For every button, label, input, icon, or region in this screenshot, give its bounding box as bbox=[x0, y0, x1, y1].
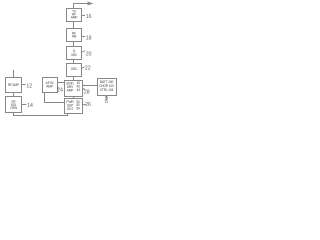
leader 16 bbox=[82, 15, 86, 17]
wire 22-28 bbox=[73, 77, 75, 81]
svg-text:24: 24 bbox=[57, 87, 63, 93]
svg-text:AM: AM bbox=[72, 35, 77, 39]
svg-text:26: 26 bbox=[85, 102, 91, 108]
svg-text:18: 18 bbox=[86, 36, 92, 42]
block 22 bbox=[67, 64, 82, 77]
wire input stub bbox=[13, 70, 15, 78]
svg-text:AMP: AMP bbox=[71, 16, 78, 20]
svg-text:AMP: AMP bbox=[46, 84, 53, 88]
leader 20 bbox=[82, 51, 86, 53]
svg-text:54: 54 bbox=[76, 107, 80, 111]
wire 28-26 bbox=[73, 97, 75, 99]
wire 24-28 bbox=[58, 82, 65, 84]
wire 26 bottom rail to block 14 bbox=[14, 113, 68, 116]
block 20 bbox=[67, 47, 82, 60]
svg-text:OSC: OSC bbox=[71, 67, 78, 71]
leader 26 bbox=[83, 104, 86, 106]
svg-text:CTRL 104: CTRL 104 bbox=[100, 88, 114, 92]
wire antenna feed bbox=[74, 4, 88, 9]
svg-text:RF AMP: RF AMP bbox=[8, 83, 19, 87]
svg-text:20: 20 bbox=[86, 51, 92, 57]
svg-text:GEN: GEN bbox=[10, 106, 17, 110]
svg-text:16: 16 bbox=[86, 14, 92, 20]
wire 30 bottom stub bbox=[106, 96, 108, 99]
leader 28 bbox=[83, 89, 85, 90]
block 18 bbox=[67, 29, 82, 42]
wire 20-22 bbox=[73, 60, 75, 64]
block 12 bbox=[6, 78, 22, 93]
svg-text:22: 22 bbox=[85, 66, 91, 72]
block 28 bbox=[65, 81, 83, 97]
block 30 bbox=[98, 79, 117, 96]
svg-text:14: 14 bbox=[27, 103, 33, 109]
wire 24 bottom to 26 bbox=[45, 93, 65, 103]
leader 22 bbox=[82, 67, 85, 69]
svg-text:12: 12 bbox=[26, 83, 32, 89]
antenna arrowhead bbox=[88, 2, 94, 6]
block 14 bbox=[6, 97, 22, 113]
wire 16-18 bbox=[73, 22, 75, 29]
leader 14 bbox=[22, 104, 27, 106]
wire 18-20 bbox=[73, 42, 75, 47]
leader 18 bbox=[82, 36, 86, 38]
svg-text:6: 6 bbox=[105, 99, 108, 105]
svg-text:MIX: MIX bbox=[71, 53, 77, 57]
wire 12-14 bbox=[13, 93, 15, 97]
leader 12 bbox=[22, 84, 26, 86]
wire 28-30 bbox=[83, 85, 98, 87]
svg-text:28: 28 bbox=[84, 89, 90, 95]
svg-text:OUT: OUT bbox=[67, 107, 74, 111]
block 24 bbox=[43, 78, 58, 93]
block 26 bbox=[65, 99, 83, 114]
leader 24 bbox=[58, 87, 60, 90]
svg-text:44: 44 bbox=[77, 88, 81, 92]
svg-text:AMP: AMP bbox=[67, 88, 74, 92]
block 16 bbox=[67, 9, 82, 22]
